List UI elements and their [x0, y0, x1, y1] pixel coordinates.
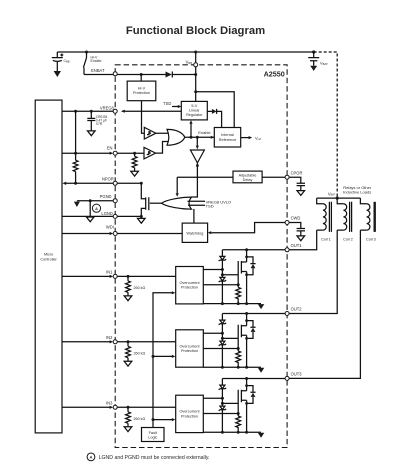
- svg-text:5-V: 5-V: [191, 104, 197, 108]
- svg-text:Watchdog: Watchdog: [186, 232, 203, 236]
- svg-text:TSD: TSD: [206, 204, 214, 209]
- svg-text:VREG8: VREG8: [100, 106, 115, 111]
- svg-text:Enable: Enable: [91, 59, 102, 63]
- svg-text:Hi-V: Hi-V: [138, 86, 146, 90]
- svg-text:Controller: Controller: [40, 257, 57, 261]
- svg-text:Logic: Logic: [148, 436, 157, 440]
- svg-text:X7R: X7R: [96, 122, 103, 126]
- svg-text:A: A: [90, 456, 93, 460]
- svg-text:OUT2: OUT2: [291, 307, 303, 312]
- svg-text:NPOR: NPOR: [102, 177, 114, 182]
- svg-text:Adjustable: Adjustable: [239, 174, 257, 178]
- svg-text:A2550: A2550: [264, 69, 285, 78]
- svg-text:Overcurrent: Overcurrent: [179, 410, 200, 414]
- svg-text:Coil 2: Coil 2: [343, 238, 353, 242]
- svg-text:Functional Block Diagram: Functional Block Diagram: [126, 25, 265, 37]
- svg-text:IN3: IN3: [106, 400, 113, 405]
- svg-text:Regulator: Regulator: [186, 113, 203, 117]
- svg-text:IN1: IN1: [106, 269, 113, 274]
- svg-text:Protection: Protection: [181, 286, 198, 290]
- svg-text:Overcurrent: Overcurrent: [179, 344, 200, 348]
- svg-text:ENBAT: ENBAT: [91, 68, 105, 73]
- svg-text:EN: EN: [107, 145, 113, 150]
- svg-text:OUT3: OUT3: [291, 372, 303, 377]
- svg-text:260 kΩ: 260 kΩ: [134, 286, 146, 290]
- svg-text:Protection: Protection: [133, 91, 150, 95]
- svg-text:Enable: Enable: [198, 130, 211, 135]
- svg-text:CPOR: CPOR: [291, 170, 303, 175]
- svg-text:Reference: Reference: [219, 138, 237, 142]
- svg-text:260 kΩ: 260 kΩ: [134, 417, 146, 421]
- svg-text:Fault: Fault: [149, 431, 158, 435]
- svg-text:Protection: Protection: [181, 414, 198, 418]
- svg-text:Delay: Delay: [243, 178, 253, 182]
- svg-text:LGND: LGND: [101, 211, 112, 216]
- svg-text:Inductive Loads: Inductive Loads: [343, 189, 371, 194]
- svg-text:Micro: Micro: [44, 253, 53, 257]
- svg-text:Protection: Protection: [181, 349, 198, 353]
- svg-text:Overcurrent: Overcurrent: [179, 281, 200, 285]
- svg-text:VBAT: VBAT: [320, 61, 328, 67]
- svg-text:IN2: IN2: [106, 335, 113, 340]
- svg-text:TSD: TSD: [163, 101, 171, 106]
- svg-text:CBB: CBB: [64, 59, 70, 64]
- svg-text:260 kΩ: 260 kΩ: [134, 352, 146, 356]
- svg-text:PGND: PGND: [100, 194, 112, 199]
- svg-text:A: A: [95, 207, 98, 211]
- svg-text:Coil 3: Coil 3: [366, 238, 376, 242]
- svg-text:Internal: Internal: [221, 133, 234, 137]
- svg-text:CWD: CWD: [291, 216, 301, 221]
- svg-text:Coil 1: Coil 1: [321, 238, 331, 242]
- svg-text:Linear: Linear: [189, 109, 200, 113]
- svg-text:WDI: WDI: [106, 224, 114, 229]
- svg-text:Vref: Vref: [255, 135, 261, 141]
- svg-text:LGND and PGND must be connecte: LGND and PGND must be connected external…: [99, 455, 210, 461]
- svg-text:OUT1: OUT1: [291, 243, 303, 248]
